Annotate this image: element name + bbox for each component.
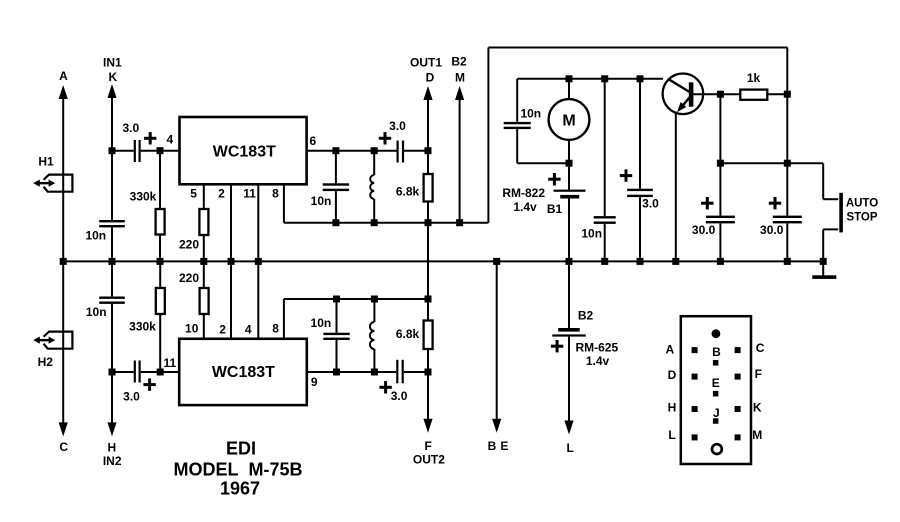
svg-text:RM-625: RM-625 bbox=[575, 340, 618, 354]
svg-text:OUT1: OUT1 bbox=[410, 55, 442, 69]
svg-text:B: B bbox=[712, 345, 721, 359]
svg-text:A: A bbox=[665, 342, 674, 356]
svg-text:30.0: 30.0 bbox=[760, 223, 784, 237]
svg-text:6: 6 bbox=[310, 134, 317, 148]
svg-text:6.8k: 6.8k bbox=[396, 184, 420, 198]
svg-text:IN2: IN2 bbox=[103, 454, 122, 468]
svg-text:3.0: 3.0 bbox=[123, 390, 140, 404]
svg-text:4: 4 bbox=[245, 323, 252, 337]
svg-text:D: D bbox=[668, 368, 677, 382]
svg-text:2: 2 bbox=[219, 323, 226, 337]
svg-text:E: E bbox=[712, 376, 720, 390]
svg-text:F: F bbox=[755, 367, 762, 381]
svg-text:STOP: STOP bbox=[846, 211, 877, 223]
svg-text:6.8k: 6.8k bbox=[396, 327, 420, 341]
svg-text:E: E bbox=[500, 439, 508, 453]
svg-text:4: 4 bbox=[166, 133, 173, 147]
svg-text:AUTO: AUTO bbox=[846, 198, 878, 210]
svg-text:K: K bbox=[753, 401, 762, 415]
svg-text:11: 11 bbox=[243, 186, 256, 200]
svg-text:B2: B2 bbox=[578, 309, 594, 323]
svg-text:8: 8 bbox=[272, 186, 279, 200]
svg-text:B2: B2 bbox=[451, 54, 467, 68]
svg-text:B: B bbox=[488, 439, 497, 453]
svg-text:220: 220 bbox=[179, 237, 199, 251]
svg-text:OUT2: OUT2 bbox=[413, 453, 445, 467]
svg-text:2: 2 bbox=[218, 186, 225, 200]
svg-text:30.0: 30.0 bbox=[692, 223, 716, 237]
svg-text:D: D bbox=[426, 70, 435, 84]
svg-text:1.4v: 1.4v bbox=[586, 354, 610, 368]
svg-text:M: M bbox=[455, 70, 465, 84]
svg-text:H: H bbox=[107, 441, 116, 455]
svg-text:220: 220 bbox=[179, 271, 199, 285]
svg-text:MODEL M-75B: MODEL M-75B bbox=[173, 459, 302, 479]
svg-text:10: 10 bbox=[185, 322, 199, 336]
svg-text:5: 5 bbox=[190, 186, 197, 200]
svg-text:H1: H1 bbox=[38, 155, 54, 169]
svg-text:H2: H2 bbox=[38, 355, 54, 369]
svg-text:K: K bbox=[108, 70, 117, 84]
svg-text:C: C bbox=[756, 341, 765, 355]
svg-text:330k: 330k bbox=[129, 320, 156, 334]
svg-text:1967: 1967 bbox=[220, 479, 260, 499]
svg-text:9: 9 bbox=[311, 375, 318, 389]
svg-text:3.0: 3.0 bbox=[122, 121, 139, 135]
svg-text:10n: 10n bbox=[86, 305, 107, 319]
svg-text:L: L bbox=[567, 441, 574, 455]
svg-text:1.4v: 1.4v bbox=[513, 200, 537, 214]
svg-text:10n: 10n bbox=[520, 107, 541, 121]
svg-text:M: M bbox=[562, 112, 575, 129]
svg-text:10n: 10n bbox=[85, 229, 106, 243]
svg-text:3.0: 3.0 bbox=[389, 119, 406, 133]
svg-text:A: A bbox=[59, 69, 68, 83]
svg-text:10n: 10n bbox=[311, 316, 332, 330]
svg-text:RM-822: RM-822 bbox=[502, 186, 545, 200]
svg-text:M: M bbox=[752, 428, 762, 442]
svg-text:330k: 330k bbox=[130, 189, 157, 203]
svg-text:1k: 1k bbox=[747, 71, 761, 85]
svg-text:J: J bbox=[713, 406, 720, 420]
svg-text:F: F bbox=[425, 439, 432, 453]
svg-text:H: H bbox=[668, 401, 677, 415]
svg-text:L: L bbox=[668, 428, 675, 442]
svg-text:3.0: 3.0 bbox=[642, 196, 659, 210]
svg-text:EDI: EDI bbox=[226, 439, 256, 459]
svg-text:8: 8 bbox=[272, 322, 279, 336]
svg-text:B1: B1 bbox=[547, 202, 563, 216]
svg-text:C: C bbox=[59, 440, 68, 454]
svg-text:3.0: 3.0 bbox=[391, 389, 408, 403]
svg-text:11: 11 bbox=[163, 356, 176, 370]
svg-text:10n: 10n bbox=[311, 194, 332, 208]
svg-text:IN1: IN1 bbox=[103, 55, 122, 69]
svg-text:WC183T: WC183T bbox=[212, 364, 275, 381]
svg-text:10n: 10n bbox=[581, 226, 602, 240]
svg-text:WC183T: WC183T bbox=[213, 143, 276, 160]
